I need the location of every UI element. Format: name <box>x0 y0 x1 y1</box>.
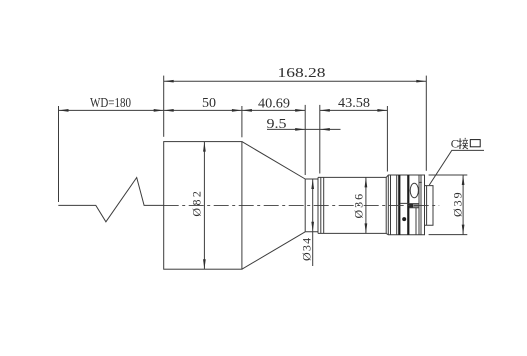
dia39 arrow top <box>462 175 465 185</box>
lens front body rectangle ø82 <box>164 142 242 270</box>
extension line snout end <box>319 105 321 174</box>
svg-text:168.28: 168.28 <box>278 66 326 81</box>
svg-text:Ø39: Ø39 <box>451 190 465 217</box>
leader C-mount <box>429 150 484 185</box>
WD arrow right <box>154 109 164 112</box>
svg-text:WD=180: WD=180 <box>90 96 131 111</box>
WD arrow left <box>59 109 69 112</box>
dia34 arrow bottom <box>311 222 314 232</box>
svg-text:Ø34: Ø34 <box>299 237 313 261</box>
extension line snout start <box>304 105 306 175</box>
object plane break line (zigzag) <box>58 178 163 222</box>
rear ring internal lines <box>391 175 422 235</box>
43.58 arrow right <box>377 109 387 112</box>
clamp slot <box>400 203 418 207</box>
dim line ø36 <box>365 177 367 233</box>
glyph 口 (hand drawn) <box>470 140 480 147</box>
svg-text:50: 50 <box>202 96 216 111</box>
cone taper top <box>242 142 305 179</box>
9.5 arrow left <box>295 128 305 131</box>
dia36 arrow top <box>365 177 368 187</box>
C-mount thread <box>425 186 434 226</box>
dim line ø39 <box>462 175 464 235</box>
svg-text:C: C <box>451 136 459 150</box>
dim line WD=180 / 50 / 40.69 <box>59 109 306 111</box>
dia39 arrow bottom <box>462 225 465 235</box>
50 arrow left <box>164 109 174 112</box>
svg-text:43.58: 43.58 <box>338 96 370 111</box>
snout ø34 <box>305 177 318 233</box>
extension line WD left <box>58 106 60 202</box>
168.28 arrow right <box>416 80 426 83</box>
barrel ø36 <box>318 177 386 233</box>
set screw dot <box>402 217 406 221</box>
extension lines ø39 <box>429 175 468 235</box>
svg-text:40.69: 40.69 <box>258 97 290 112</box>
rear dark ring line 1 <box>398 175 400 235</box>
dim line ø34 <box>312 179 314 266</box>
extension line front face <box>163 76 165 137</box>
svg-text:Ø36: Ø36 <box>352 192 366 219</box>
glyph 接 (hand drawn) <box>458 138 468 149</box>
rear ring section ø39 outline <box>386 175 424 235</box>
thumbscrew ellipse <box>410 183 418 198</box>
step ring lines <box>321 177 324 233</box>
dia36 arrow bottom <box>365 223 368 233</box>
centerline <box>164 204 440 206</box>
40.69 arrow right <box>295 109 305 112</box>
arrowheads <box>59 80 465 269</box>
50 arrow right <box>232 109 242 112</box>
dim line ø82 <box>203 142 205 270</box>
svg-text:9.5: 9.5 <box>267 117 287 132</box>
dia34 arrow top <box>311 179 314 189</box>
dim line 168.28 <box>164 80 427 82</box>
168.28 arrow left <box>164 80 174 83</box>
svg-text:Ø82: Ø82 <box>190 189 204 217</box>
9.5 arrow right <box>320 128 330 131</box>
43.58 arrow left <box>320 109 330 112</box>
extension line rect right <box>241 106 243 137</box>
cone taper bottom <box>242 232 305 269</box>
dia82 arrow top <box>203 142 206 152</box>
dim line 43.58 <box>320 109 388 111</box>
rear dark ring line 2 <box>407 175 409 235</box>
dia82 arrow bottom <box>203 259 206 269</box>
dimension texts <box>90 66 465 261</box>
40.69 arrow left <box>242 109 252 112</box>
dim line 9.5 <box>267 128 341 130</box>
extension line rear face <box>425 76 427 171</box>
extension line barrel end <box>386 106 388 172</box>
